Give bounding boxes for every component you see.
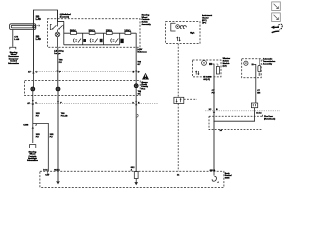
box C wire [255, 78, 257, 103]
top right icon 2 [272, 13, 281, 22]
switch icons [83, 39, 86, 42]
svg-text:First: First [141, 87, 145, 90]
svg-text:C1 14: C1 14 [256, 112, 262, 115]
svg-text:(LR): (LR) [223, 65, 227, 67]
svg-text:L-AB: L-AB [36, 18, 42, 21]
svg-text:PU: PU [36, 137, 39, 139]
lamp [55, 32, 60, 37]
left component text block [8, 51, 20, 65]
bottom rail [64, 44, 120, 46]
svg-text:PU: PU [59, 62, 62, 64]
wire ladder to splice [135, 33, 137, 84]
dashed box C [242, 59, 262, 78]
resistor R2 [89, 31, 95, 34]
svg-text:Schematics: Schematics [27, 159, 39, 162]
svg-text:C208: C208 [23, 125, 29, 127]
svg-text:L-AB: L-AB [36, 38, 42, 41]
node E/D on ladder wire [136, 70, 137, 71]
steering wheel controls label block [142, 13, 152, 26]
svg-text:L-AB: L-AB [14, 38, 19, 41]
resistor R4 [125, 31, 131, 34]
splice band [25, 81, 141, 96]
instrument dashed box A [166, 22, 200, 44]
svg-text:560Ω: 560Ω [70, 29, 76, 33]
left wire down [32, 10, 34, 89]
svg-text:PU: PU [50, 137, 53, 139]
svg-text:UPC: UPC [202, 22, 207, 24]
bottom ground band [40, 171, 224, 187]
svg-text:(Notchback): (Notchback) [264, 117, 276, 120]
svg-text:PU-AB: PU-AB [61, 114, 68, 117]
box A up-down arrows [177, 37, 181, 41]
svg-text:330Ω: 330Ω [89, 29, 95, 33]
top right pan icon [271, 24, 283, 33]
horn plate bar [10, 24, 36, 30]
svg-text:A8 (LF): A8 (LF) [203, 78, 210, 81]
node F on lamp wire [57, 70, 58, 71]
svg-text:Assembly: Assembly [142, 23, 152, 26]
svg-text:(Controls): (Controls) [60, 16, 70, 19]
resistor R3 [106, 31, 112, 34]
connector box on wire [251, 103, 257, 108]
wire from bar down-left [12, 30, 14, 47]
splice S1 [30, 87, 35, 92]
dashed box B [193, 60, 222, 77]
branch wire [33, 123, 49, 171]
fuse block box outline [33, 10, 64, 71]
clip component [10, 47, 16, 49]
svg-text:Reference: Reference [137, 50, 147, 53]
svg-text:BN: BN [257, 93, 260, 95]
dotted interconnect line 3 [205, 110, 280, 112]
svg-text:150Ω: 150Ω [106, 29, 112, 33]
svg-text:G12 A: G12 A [54, 169, 60, 172]
box A icons [171, 23, 176, 31]
resistor R1 [71, 31, 77, 34]
svg-text:G12 A: G12 A [210, 169, 216, 172]
connector arrow right of bar [37, 25, 40, 27]
node A/C on left wire [32, 72, 34, 74]
junction dot on bar [32, 26, 34, 28]
box B label [223, 58, 231, 67]
svg-text:PU: PU [36, 115, 39, 117]
top right icon 1 [272, 2, 281, 11]
switch row [73, 39, 118, 43]
splice S2 [56, 87, 61, 92]
ladder bus [58, 21, 71, 44]
svg-text:PU: PU [212, 92, 215, 94]
wire from fuse box into switch [57, 10, 59, 27]
warning triangle [142, 73, 149, 80]
dashed wire from box A [177, 44, 179, 98]
svg-text:Schematics: Schematics [8, 62, 20, 65]
svg-text:Assembly: Assembly [263, 62, 273, 65]
dotted interconnect line 1 [28, 71, 140, 73]
dotted interconnect line 2 [28, 102, 158, 104]
box A label [202, 14, 212, 24]
tap drops [83, 33, 120, 45]
bottom-left component [30, 145, 36, 148]
switch cluster [50, 25, 63, 30]
steering wheel controls dashed box [47, 19, 140, 48]
connector box C2 [174, 97, 184, 103]
wires continue below splices [32, 91, 34, 143]
lamp wire continues to splice [57, 47, 59, 86]
variant dashed box [209, 115, 262, 130]
box C label [263, 58, 276, 66]
svg-text:CAV: CAV [45, 173, 50, 176]
svg-text:100Ω: 100Ω [124, 29, 130, 33]
splice S3 [134, 83, 139, 88]
box B wire [213, 77, 215, 171]
